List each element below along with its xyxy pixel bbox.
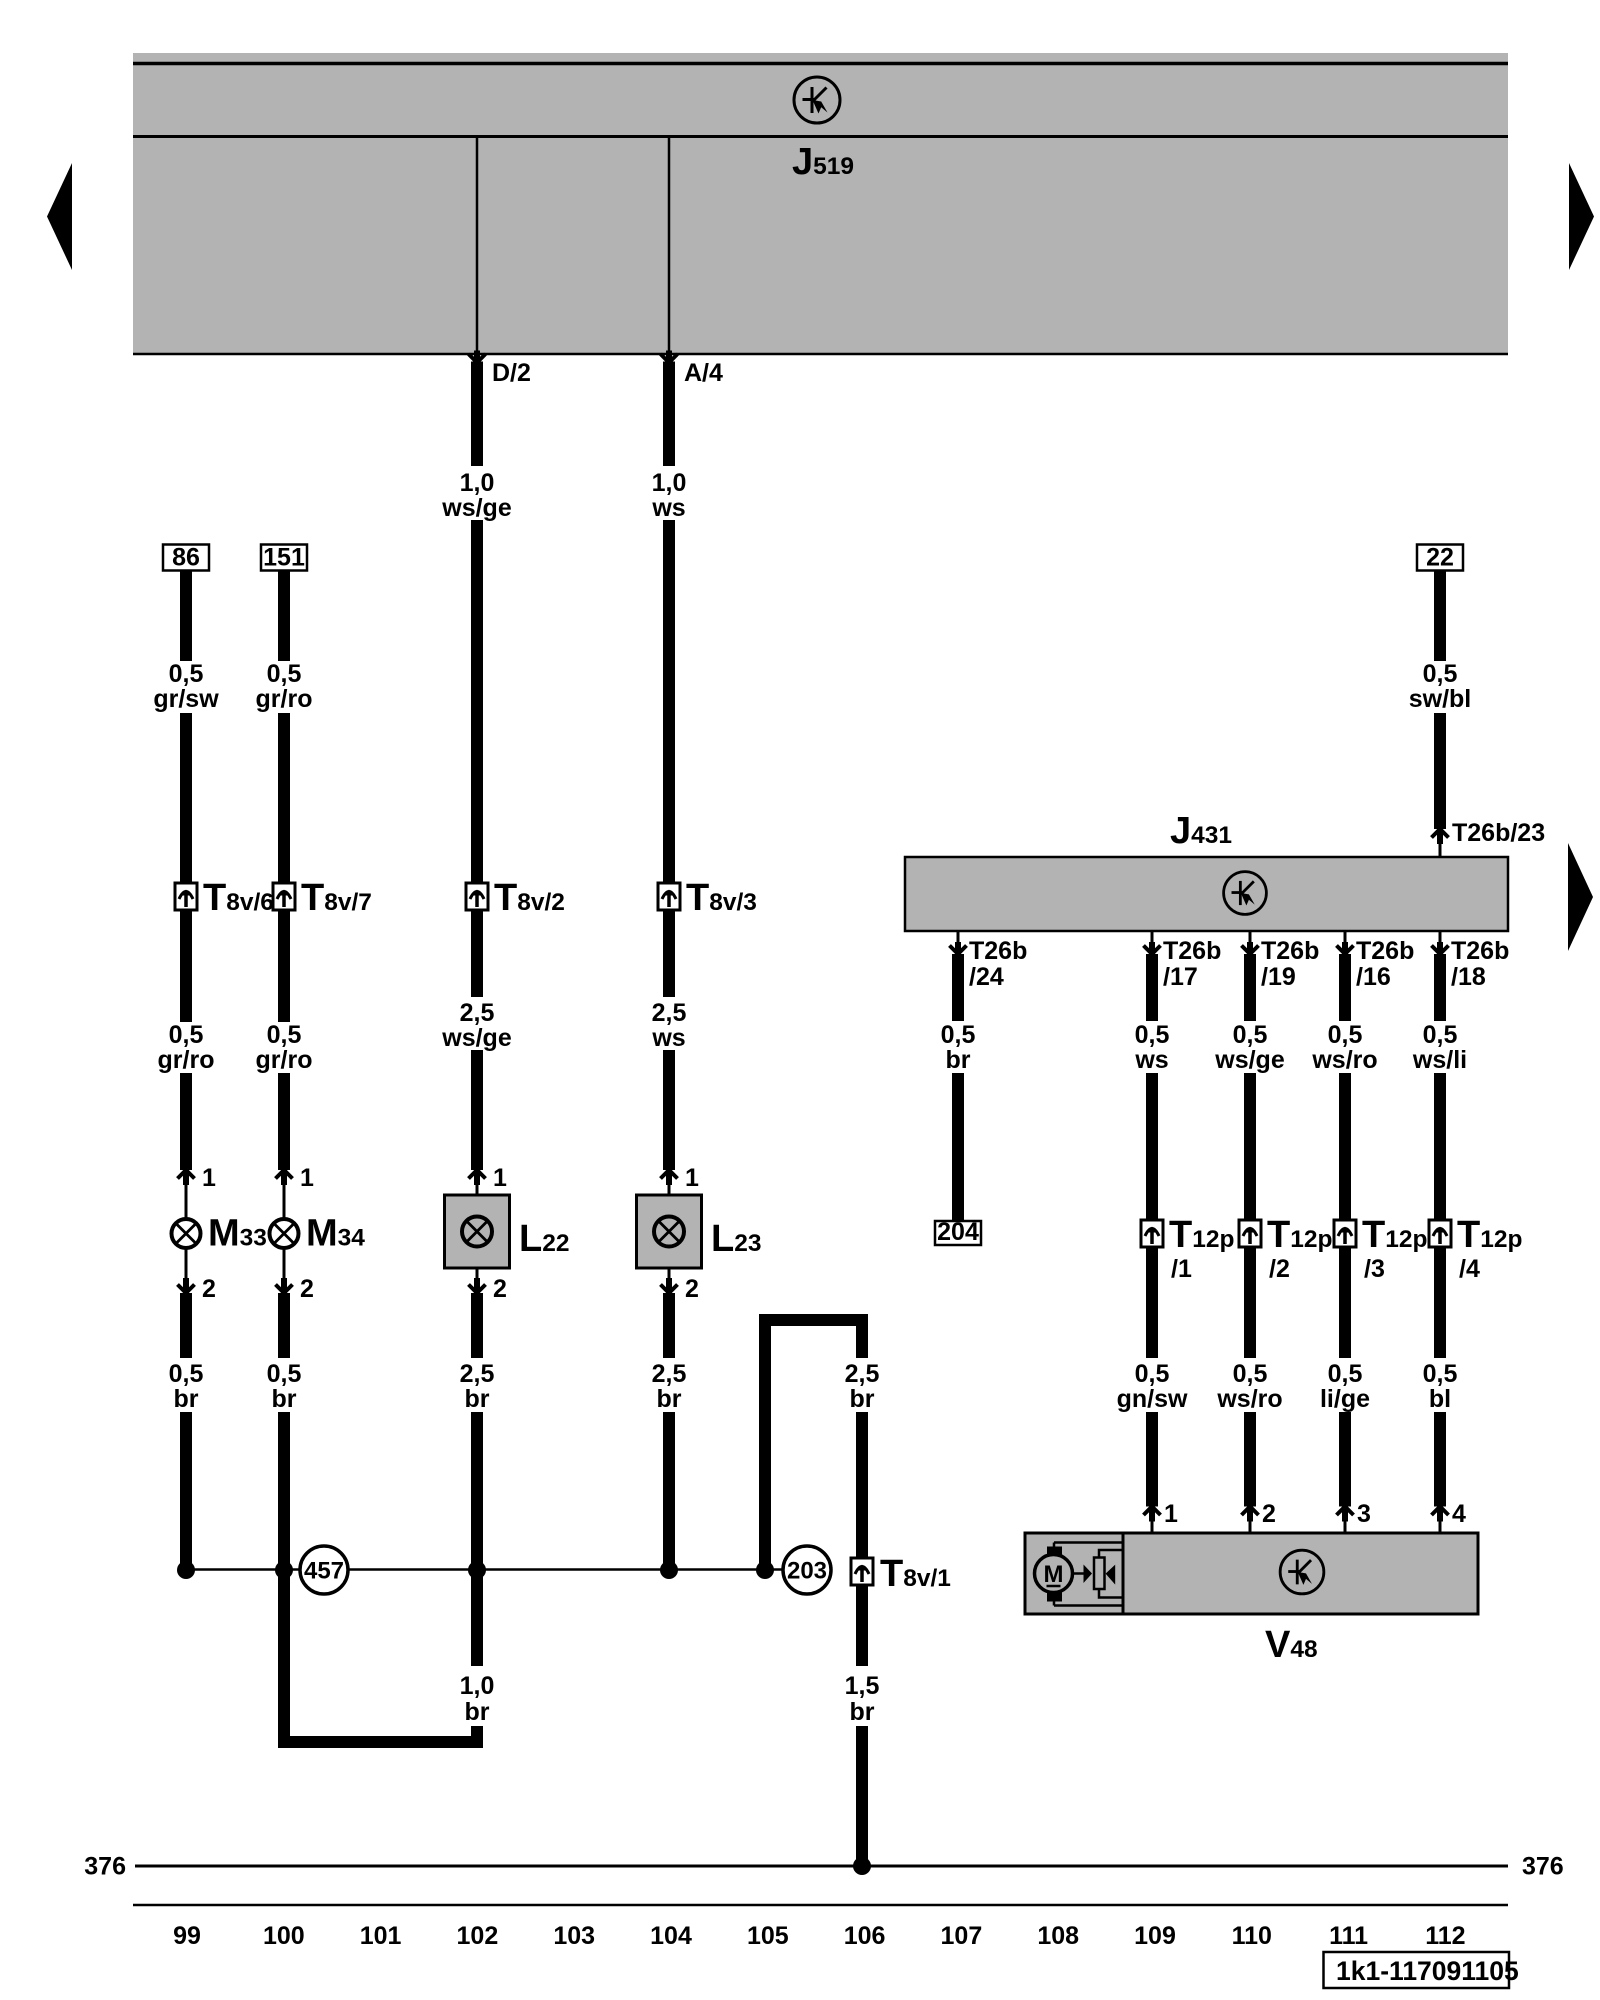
bottom ruler line: [133, 1904, 1508, 1907]
pin A/4 of J519: [661, 351, 678, 363]
svg-text:/2: /2: [1269, 1255, 1290, 1283]
svg-text:1,0: 1,0: [460, 469, 495, 497]
svg-text:22: 22: [1426, 544, 1454, 572]
J519 box bottom edge: [133, 353, 1508, 356]
control unit J519 box: [133, 53, 1508, 355]
svg-text:ws/ro: ws/ro: [1216, 1385, 1282, 1413]
wire bl lower segment: [1434, 1412, 1446, 1507]
pin 1 of V48: [1144, 1507, 1161, 1534]
svg-text:0,5: 0,5: [267, 1360, 302, 1388]
positioner symbol inside V48: [1073, 1550, 1124, 1598]
wire gr/ro middle segment (track 100): [278, 713, 290, 883]
wire 1,0 ws upper segment (track 104): [663, 362, 675, 467]
wire sw/bl lower segment: [1434, 713, 1446, 829]
svg-text:1: 1: [685, 1164, 699, 1192]
control unit J431 box: [905, 857, 1508, 931]
wire 0,5 li/ge segment: [1339, 1247, 1351, 1358]
terminal 204 box: [935, 1218, 981, 1246]
wire ws/ro lower segment: [1244, 1412, 1256, 1507]
svg-text:2: 2: [685, 1275, 699, 1303]
svg-text:2,5: 2,5: [460, 1360, 495, 1388]
svg-text:ws/ro: ws/ro: [1311, 1046, 1377, 1074]
svg-text:0,5: 0,5: [1233, 1360, 1268, 1388]
wire 2,5 ws/ge segment: [471, 910, 483, 997]
svg-text:0,5: 0,5: [1135, 1021, 1170, 1049]
continuation arrow left: [47, 163, 72, 270]
svg-text:gr/ro: gr/ro: [158, 1046, 215, 1074]
wire 0,5 ws/ro segment: [1244, 1247, 1256, 1358]
wire 0,5 gr/ro upper segment (track 100): [278, 571, 290, 662]
pin 2 of M33: [178, 1248, 195, 1294]
svg-text:1: 1: [493, 1164, 507, 1192]
lamp symbol L22: [462, 1217, 492, 1247]
svg-text:M33: M33: [208, 1213, 267, 1255]
svg-text:108: 108: [1037, 1922, 1079, 1950]
junction on ground bus (track 102): [468, 1561, 486, 1579]
pin 1 of M34: [276, 1170, 293, 1220]
K-symbol of J431: [1224, 872, 1267, 915]
wire 2,5 br to ground bus (track 104): [663, 1412, 675, 1570]
continuation arrow right top: [1569, 163, 1594, 270]
svg-text:109: 109: [1134, 1922, 1176, 1950]
terminal 151 box: [261, 544, 307, 572]
svg-text:1,5: 1,5: [845, 1672, 880, 1700]
svg-text:L22: L22: [519, 1218, 569, 1260]
wire 1,0 br stub to elbow: [471, 1726, 483, 1748]
svg-text:T12p: T12p: [1362, 1214, 1427, 1256]
svg-text:J431: J431: [1170, 810, 1232, 852]
svg-text:ws/li: ws/li: [1412, 1046, 1467, 1074]
wire ws middle segment (track 104): [663, 520, 675, 883]
wire 0,5 ws/ge upper segment: [1244, 954, 1256, 1021]
svg-text:gr/ro: gr/ro: [256, 685, 313, 713]
lamp L22 housing: [445, 1195, 510, 1268]
wire 1,0 ws/ge upper segment (track 102): [471, 362, 483, 467]
svg-text:ws/ge: ws/ge: [441, 494, 512, 522]
connector T8v/1: [851, 1558, 873, 1585]
junction on ground bus (track 104): [660, 1561, 678, 1579]
svg-text:1k1-117091105: 1k1-117091105: [1336, 1956, 1519, 1986]
connector T12p/4: [1429, 1220, 1451, 1247]
wire 0,5 ws/ro upper segment: [1339, 954, 1351, 1021]
J519 internal wire to pin D/2: [476, 137, 479, 354]
J519 box middle rail line: [133, 135, 1508, 138]
wire gr/ro lower segment (track 100): [278, 1073, 290, 1170]
svg-text:100: 100: [263, 1922, 305, 1950]
svg-text:br: br: [657, 1385, 682, 1413]
svg-text:T26b: T26b: [969, 937, 1027, 965]
svg-text:T8v/6: T8v/6: [203, 877, 274, 919]
svg-text:0,5: 0,5: [267, 660, 302, 688]
svg-text:102: 102: [457, 1922, 499, 1950]
svg-text:bl: bl: [1429, 1385, 1451, 1413]
ground bus wire to reference 203: [186, 1568, 783, 1571]
wire 0,5 gr/ro segment 2 (track 100): [278, 910, 290, 1022]
svg-text:104: 104: [650, 1922, 692, 1950]
svg-text:0,5: 0,5: [941, 1021, 976, 1049]
pin 1 of L22: [469, 1170, 486, 1195]
svg-text:0,5: 0,5: [267, 1021, 302, 1049]
svg-text:111: 111: [1329, 1922, 1368, 1950]
junction on ground bus (track 105): [756, 1561, 774, 1579]
wire 0,5 ws upper segment: [1146, 954, 1158, 1021]
wire br down to elbow (track 100): [278, 1412, 290, 1742]
junction on ground line 376: [853, 1857, 871, 1875]
svg-text:/16: /16: [1356, 963, 1391, 991]
pin 1 of M33: [178, 1170, 195, 1220]
svg-text:105: 105: [747, 1922, 789, 1950]
continuation arrow right at J431: [1568, 843, 1593, 951]
svg-text:2,5: 2,5: [460, 999, 495, 1027]
connector T8v/6: [175, 883, 197, 910]
svg-text:0,5: 0,5: [169, 660, 204, 688]
svg-text:2,5: 2,5: [652, 1360, 687, 1388]
svg-text:M34: M34: [306, 1213, 365, 1255]
pin 2 of V48: [1242, 1507, 1259, 1534]
V48 motor compartment divider: [1122, 1533, 1125, 1614]
pin 1 of L23: [661, 1170, 678, 1195]
svg-text:br: br: [465, 1385, 490, 1413]
wire 0,5 br upper segment (track 107): [952, 954, 964, 1021]
wire 0,5 bl segment: [1434, 1247, 1446, 1358]
terminal 86 box: [163, 544, 209, 572]
svg-text:br: br: [174, 1385, 199, 1413]
svg-text:V48: V48: [1265, 1624, 1318, 1666]
wire 2,5 br upper segment (track 106): [856, 1322, 868, 1358]
wire 0,5 ws/li upper segment: [1434, 954, 1446, 1021]
svg-text:ws: ws: [651, 1024, 685, 1052]
svg-text:T26b: T26b: [1163, 937, 1221, 965]
track numbers 99-112: [173, 1922, 1465, 1950]
svg-text:T26b: T26b: [1356, 937, 1414, 965]
svg-text:A/4: A/4: [684, 359, 723, 387]
svg-text:376: 376: [84, 1853, 126, 1881]
svg-text:86: 86: [172, 544, 200, 572]
junction on ground bus (track 100): [275, 1561, 293, 1579]
ground line 376: [135, 1865, 1508, 1868]
svg-text:li/ge: li/ge: [1320, 1385, 1370, 1413]
pin T26b/16 of J431: [1337, 931, 1354, 956]
connector T12p/2: [1239, 1220, 1261, 1247]
wire 2,5 ws segment: [663, 910, 675, 997]
wire ws/li to connector T12p/4: [1434, 1073, 1446, 1220]
svg-text:T12p: T12p: [1457, 1214, 1522, 1256]
svg-text:1,0: 1,0: [460, 1672, 495, 1700]
svg-text:/24: /24: [969, 963, 1004, 991]
svg-text:2: 2: [202, 1275, 216, 1303]
wire 0,5 gn/sw segment: [1146, 1247, 1158, 1358]
svg-text:T8v/1: T8v/1: [880, 1553, 951, 1595]
svg-text:0,5: 0,5: [169, 1021, 204, 1049]
svg-text:T8v/3: T8v/3: [686, 877, 757, 919]
pin 2 of L22: [469, 1268, 486, 1293]
svg-text:/19: /19: [1261, 963, 1296, 991]
svg-text:br: br: [272, 1385, 297, 1413]
pin 4 of V48: [1432, 1507, 1449, 1534]
svg-text:br: br: [850, 1698, 875, 1726]
svg-text:203: 203: [787, 1558, 827, 1585]
pin 2 of M34: [276, 1248, 293, 1294]
bulb symbol M33: [172, 1219, 201, 1248]
svg-text:99: 99: [173, 1922, 201, 1950]
svg-text:M: M: [1044, 1561, 1064, 1588]
svg-text:1,0: 1,0: [652, 469, 687, 497]
svg-text:gr/ro: gr/ro: [256, 1046, 313, 1074]
svg-text:2,5: 2,5: [845, 1360, 880, 1388]
wire 0,5 br segment (track 100): [278, 1293, 290, 1358]
wire gr/ro lower segment (track 99): [180, 1073, 192, 1170]
svg-text:0,5: 0,5: [1328, 1021, 1363, 1049]
svg-text:/18: /18: [1451, 963, 1486, 991]
svg-text:103: 103: [553, 1922, 595, 1950]
connector T12p/3: [1334, 1220, 1356, 1247]
pin D/2 of J519: [469, 351, 486, 363]
connector T8v/2: [466, 883, 488, 910]
lamp L23 housing: [637, 1195, 702, 1268]
pin T26b/17 of J431: [1144, 931, 1161, 956]
svg-text:3: 3: [1357, 1500, 1371, 1528]
svg-text:107: 107: [941, 1922, 983, 1950]
svg-text:151: 151: [263, 544, 305, 572]
wire gn/sw lower segment: [1146, 1412, 1158, 1507]
svg-text:gr/sw: gr/sw: [153, 685, 219, 713]
pin T26b/19 of J431: [1242, 931, 1259, 956]
wire 2,5 br segment (track 102): [471, 1293, 483, 1358]
svg-text:/17: /17: [1163, 963, 1198, 991]
svg-text:D/2: D/2: [492, 359, 531, 387]
svg-text:0,5: 0,5: [1233, 1021, 1268, 1049]
svg-text:2: 2: [300, 1275, 314, 1303]
motor symbol M of V48: [1035, 1543, 1124, 1606]
bulb symbol M34: [270, 1219, 299, 1248]
svg-text:204: 204: [937, 1218, 979, 1246]
svg-text:/4: /4: [1459, 1255, 1480, 1283]
svg-text:/3: /3: [1364, 1255, 1385, 1283]
wire elbow track 105 to track 106 (2,5 br): [759, 1314, 868, 1326]
svg-text:T12p: T12p: [1169, 1214, 1234, 1256]
K-symbol of J519: [794, 77, 840, 123]
wire gr/sw lower segment: [180, 713, 192, 883]
svg-text:1: 1: [300, 1164, 314, 1192]
wire li/ge lower segment: [1339, 1412, 1351, 1507]
svg-text:1: 1: [1164, 1500, 1178, 1528]
svg-text:106: 106: [844, 1922, 886, 1950]
svg-text:T26b: T26b: [1261, 937, 1319, 965]
pin 2 of L23: [661, 1268, 678, 1293]
pin T26b/23 of J431: [1432, 829, 1449, 857]
wire elbow joining track 100 to track 102 (1,0 br): [278, 1736, 483, 1748]
K-symbol of V48: [1280, 1550, 1324, 1594]
wire 2,5 br leg down to bus (track 105): [759, 1322, 771, 1570]
connector T8v/7: [273, 883, 295, 910]
wire 0,5 gr/ro segment (track 99): [180, 910, 192, 1022]
wire 2,5 ws/ge lower segment: [471, 1050, 483, 1170]
svg-text:L23: L23: [711, 1218, 761, 1260]
svg-text:0,5: 0,5: [169, 1360, 204, 1388]
svg-text:ws/ge: ws/ge: [1214, 1046, 1285, 1074]
wire 0,5 gr/sw upper segment (track 99): [180, 571, 192, 662]
wire 2,5 br to ground bus: [471, 1412, 483, 1570]
wire 1,5 br to ground line 376: [856, 1726, 868, 1866]
svg-text:101: 101: [360, 1922, 402, 1950]
svg-text:br: br: [850, 1385, 875, 1413]
wire reference circle 457: [300, 1546, 348, 1594]
svg-text:110: 110: [1232, 1922, 1272, 1950]
svg-text:br: br: [946, 1046, 971, 1074]
wire 1,0 br below bus (track 102): [471, 1570, 483, 1666]
motor V48 box: [1025, 1533, 1478, 1614]
svg-text:T12p: T12p: [1267, 1214, 1332, 1256]
wire br to terminal 204: [952, 1073, 964, 1221]
wire ws/ge middle segment (track 102): [471, 520, 483, 883]
svg-text:ws/ge: ws/ge: [441, 1024, 512, 1052]
wire ws/ge to connector T12p/2: [1244, 1073, 1256, 1220]
svg-text:ws: ws: [1134, 1046, 1168, 1074]
diagram number box 1k1-117091105: [1324, 1952, 1519, 1988]
svg-text:2: 2: [1262, 1500, 1276, 1528]
svg-text:T26b/23: T26b/23: [1452, 819, 1545, 847]
svg-text:0,5: 0,5: [1423, 1360, 1458, 1388]
lamp symbol L23: [654, 1217, 684, 1247]
connector T12p/1: [1141, 1220, 1163, 1247]
svg-text:0,5: 0,5: [1328, 1360, 1363, 1388]
svg-text:gn/sw: gn/sw: [1117, 1385, 1188, 1413]
svg-text:0,5: 0,5: [1135, 1360, 1170, 1388]
wire 2,5 br to T8v/1: [856, 1412, 868, 1558]
pin T26b/24 of J431: [950, 931, 967, 956]
svg-text:T8v/7: T8v/7: [301, 877, 372, 919]
wire 2,5 ws lower segment: [663, 1050, 675, 1170]
wire 1,5 br upper segment (track 106): [856, 1585, 868, 1666]
wire ws/ro to connector T12p/3: [1339, 1073, 1351, 1220]
svg-text:2: 2: [493, 1275, 507, 1303]
svg-text:1: 1: [202, 1164, 216, 1192]
svg-text:4: 4: [1452, 1500, 1466, 1528]
svg-text:sw/bl: sw/bl: [1409, 685, 1472, 713]
junction dot end of ground bus (track 99): [177, 1561, 195, 1579]
svg-text:457: 457: [304, 1558, 344, 1585]
wire ws to connector T12p/1: [1146, 1073, 1158, 1220]
svg-text:0,5: 0,5: [1423, 1021, 1458, 1049]
pin 3 of V48: [1337, 1507, 1354, 1534]
wire 2,5 br segment (track 104): [663, 1293, 675, 1358]
wire 0,5 br to ground bus (track 99): [180, 1412, 192, 1570]
svg-text:T8v/2: T8v/2: [494, 877, 565, 919]
J519 internal wire to pin A/4: [668, 137, 671, 354]
svg-text:0,5: 0,5: [1423, 660, 1458, 688]
svg-text:ws: ws: [651, 494, 685, 522]
svg-text:2,5: 2,5: [652, 999, 687, 1027]
J519 box top rail line: [133, 62, 1508, 66]
svg-text:112: 112: [1425, 1922, 1465, 1950]
pin T26b/18 of J431: [1432, 931, 1449, 956]
wire reference circle 203: [783, 1546, 831, 1594]
connector T8v/3: [658, 883, 680, 910]
svg-text:br: br: [465, 1698, 490, 1726]
terminal 22 box: [1417, 544, 1463, 572]
wire 0,5 br segment (track 99): [180, 1293, 192, 1358]
wire 0,5 sw/bl upper segment (track 112): [1434, 571, 1446, 662]
svg-text:376: 376: [1522, 1853, 1564, 1881]
svg-text:/1: /1: [1171, 1255, 1192, 1283]
svg-text:T26b: T26b: [1451, 937, 1509, 965]
